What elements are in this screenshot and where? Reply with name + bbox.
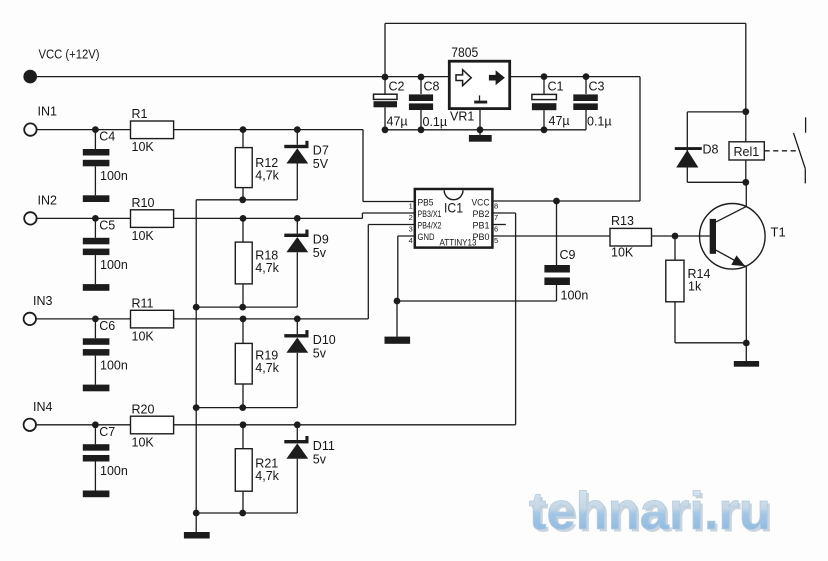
svg-text:C5: C5 (99, 218, 115, 232)
svg-text:IC1: IC1 (444, 200, 463, 216)
svg-text:4,7k: 4,7k (255, 169, 279, 183)
svg-text:C6: C6 (99, 319, 115, 333)
svg-text:VCC (+12V): VCC (+12V) (39, 48, 100, 62)
svg-text:PB5: PB5 (418, 198, 434, 208)
svg-text:5V: 5V (313, 157, 329, 171)
svg-text:GND: GND (418, 232, 435, 242)
svg-text:4,7k: 4,7k (255, 469, 279, 483)
svg-text:C8: C8 (424, 80, 440, 94)
svg-text:ATTINY13: ATTINY13 (440, 238, 477, 249)
svg-text:100n: 100n (100, 358, 128, 372)
svg-text:PB1: PB1 (473, 221, 490, 231)
svg-text:1k: 1k (688, 279, 702, 293)
svg-text:D7: D7 (313, 144, 329, 158)
svg-text:C9: C9 (560, 248, 576, 262)
svg-text:5: 5 (494, 236, 498, 245)
svg-text:1: 1 (409, 202, 413, 211)
svg-text:D11: D11 (313, 439, 335, 453)
svg-text:5v: 5v (313, 246, 327, 260)
svg-text:PB4/X2: PB4/X2 (418, 221, 442, 231)
svg-text:7805: 7805 (451, 45, 478, 60)
svg-text:PB3/X1: PB3/X1 (418, 209, 442, 219)
svg-text:100n: 100n (100, 258, 128, 272)
svg-text:IN4: IN4 (33, 400, 53, 414)
svg-text:4,7k: 4,7k (255, 261, 279, 275)
svg-text:PB0: PB0 (473, 232, 490, 242)
svg-text:47µ: 47µ (387, 115, 408, 129)
svg-text:100n: 100n (561, 289, 589, 303)
svg-text:100n: 100n (100, 169, 128, 183)
svg-text:5v: 5v (313, 452, 327, 466)
svg-text:8: 8 (494, 202, 498, 211)
svg-text:C1: C1 (548, 80, 564, 94)
svg-text:C4: C4 (99, 130, 115, 144)
svg-text:VR1: VR1 (450, 110, 474, 124)
svg-text:7: 7 (494, 213, 498, 222)
svg-text:2: 2 (409, 213, 413, 222)
svg-text:R1: R1 (132, 107, 148, 121)
svg-text:10K: 10K (132, 435, 155, 449)
svg-text:5v: 5v (313, 346, 327, 360)
svg-text:D8: D8 (703, 143, 719, 157)
svg-text:R11: R11 (132, 296, 154, 310)
svg-text:C7: C7 (99, 425, 115, 439)
svg-text:T1: T1 (771, 225, 786, 240)
svg-text:10K: 10K (132, 329, 155, 343)
svg-text:IN3: IN3 (33, 294, 53, 308)
svg-text:IN2: IN2 (38, 193, 58, 207)
svg-text:10K: 10K (611, 246, 634, 260)
svg-text:VCC: VCC (472, 198, 490, 208)
svg-text:D9: D9 (313, 232, 329, 246)
svg-text:3: 3 (409, 225, 413, 234)
svg-text:C3: C3 (589, 80, 605, 94)
svg-text:R20: R20 (132, 402, 155, 416)
svg-text:0.1µ: 0.1µ (423, 115, 448, 129)
svg-text:0.1µ: 0.1µ (587, 115, 612, 129)
svg-text:R10: R10 (132, 196, 155, 210)
svg-text:tehnari.ru: tehnari.ru (529, 482, 771, 541)
svg-text:C2: C2 (389, 80, 405, 94)
svg-text:Rel1: Rel1 (734, 145, 760, 159)
svg-text:4,7k: 4,7k (255, 361, 279, 375)
svg-text:10K: 10K (132, 140, 155, 154)
svg-text:R13: R13 (611, 214, 634, 228)
svg-text:47µ: 47µ (549, 114, 570, 128)
svg-text:6: 6 (494, 225, 498, 234)
svg-text:100n: 100n (100, 464, 128, 478)
svg-text:10K: 10K (132, 229, 155, 243)
svg-text:4: 4 (409, 236, 413, 245)
svg-text:PB2: PB2 (473, 209, 490, 219)
svg-text:D10: D10 (313, 333, 336, 347)
svg-text:IN1: IN1 (38, 105, 58, 119)
